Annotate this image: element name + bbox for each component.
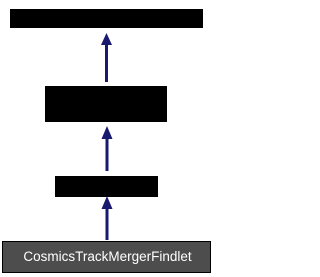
node current: CosmicsTrackMergerFindlet (highlighted bottom box) [2,241,211,273]
node base2: TrackFindingCDC::CompositeProcessingSignalListener (middle box, filled black) [45,86,167,122]
node base1: TrackFindingCDC::ProcessingSignalListener (top box, filled black) [10,9,203,28]
inheritance arrow 1 (middle box to top box) [101,33,112,82]
inheritance arrow 2 (third box to middle box) [102,126,113,171]
node base3: TrackFindingCDC::Findlet (third box, filled black) [55,176,158,197]
inheritance arrow 3 (bottom box to third box) [102,196,113,240]
